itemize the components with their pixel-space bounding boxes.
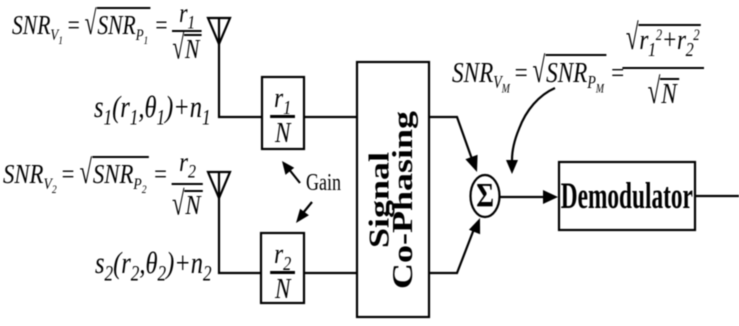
formula SNR_V2: [3, 150, 203, 218]
summer sigma symbol: [470, 175, 500, 217]
wire summer to demodulator: [500, 196, 546, 198]
antenna A1: [208, 18, 230, 44]
formula SNR_VM: [452, 24, 704, 108]
wire co-phasing top output to summer: [429, 117, 473, 162]
gain callout arrow upper tail: [288, 168, 300, 183]
demodulator label: [559, 162, 695, 230]
wire antenna A2 down to gain 2 input: [219, 198, 261, 273]
gain box r2/N: [261, 233, 304, 303]
wire gain 2 to co-phasing: [304, 272, 357, 274]
wire antenna A1 down to gain 1 input: [219, 44, 262, 117]
antenna A2: [208, 172, 230, 198]
gain 2 value r2/N: [261, 233, 304, 303]
gain 1 value r1/N: [262, 77, 304, 149]
arrowhead gain lower: [296, 209, 309, 223]
box: Signal Co-Phasing: [357, 62, 429, 317]
wire demodulator output: [695, 195, 739, 197]
arrowhead gain upper: [282, 161, 294, 175]
formula SNR_V1: [12, 1, 202, 62]
wire gain 1 to co-phasing: [304, 116, 357, 118]
gain callout arrow lower tail: [303, 202, 312, 213]
wire co-phasing bottom output to summer: [429, 229, 474, 273]
summer node ellipse: [471, 175, 500, 217]
arrowhead of curved arrow: [506, 160, 518, 174]
signal label s2: [95, 245, 212, 281]
co-phasing box label: [357, 62, 429, 317]
arrowhead into demodulator: [543, 190, 558, 204]
arrowhead into summer from bottom-left: [469, 218, 480, 234]
arrowhead into summer from top-left: [465, 155, 477, 172]
gain box r1/N: [262, 77, 304, 149]
curved arrow from SNR_M formula to summer: [512, 88, 555, 160]
signal label s1: [94, 89, 211, 125]
gain label: [306, 170, 341, 197]
demodulator box: [559, 162, 695, 230]
